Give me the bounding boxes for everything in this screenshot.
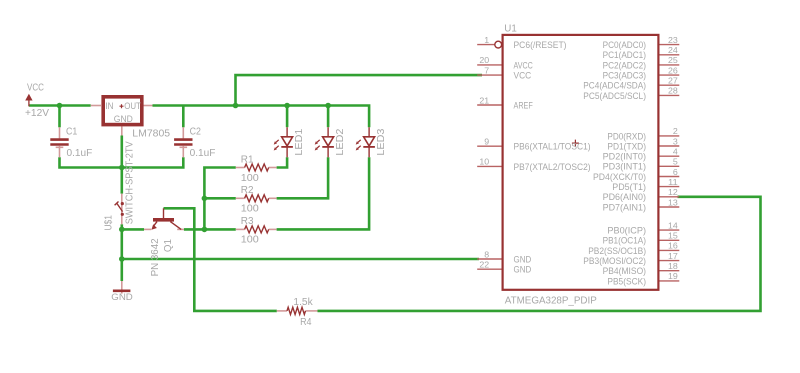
- svg-text:GND: GND: [114, 114, 133, 124]
- svg-text:7: 7: [484, 65, 489, 75]
- svg-text:25: 25: [668, 55, 678, 65]
- svg-text:10: 10: [479, 157, 489, 167]
- svg-text:PB7(XTAL2/TOSC2): PB7(XTAL2/TOSC2): [514, 162, 591, 173]
- svg-text:27: 27: [668, 76, 678, 86]
- svg-text:26: 26: [668, 65, 678, 75]
- svg-text:PD7(AIN1): PD7(AIN1): [603, 202, 646, 213]
- svg-text:ATMEGA328P_PDIP: ATMEGA328P_PDIP: [505, 296, 597, 307]
- svg-text:LM7805: LM7805: [132, 128, 170, 139]
- svg-text:C2: C2: [190, 127, 201, 138]
- svg-text:100: 100: [241, 235, 260, 246]
- svg-text:R4: R4: [300, 317, 312, 328]
- svg-text:16: 16: [668, 241, 678, 251]
- svg-text:GND: GND: [111, 292, 133, 302]
- svg-text:C1: C1: [66, 127, 77, 138]
- svg-text:+12V: +12V: [25, 108, 50, 119]
- svg-text:R2: R2: [241, 185, 254, 196]
- svg-text:5: 5: [673, 157, 678, 167]
- svg-text:VCC: VCC: [514, 71, 532, 82]
- svg-text:IN: IN: [105, 101, 113, 111]
- svg-text:VCC: VCC: [27, 83, 44, 94]
- svg-text:28: 28: [668, 86, 678, 96]
- svg-text:2: 2: [673, 126, 678, 136]
- svg-text:OUT: OUT: [124, 101, 141, 111]
- svg-text:Q1: Q1: [163, 239, 174, 252]
- svg-text:AREF: AREF: [514, 100, 533, 111]
- svg-text:100: 100: [241, 173, 260, 184]
- svg-text:PC5(ADC5/SCL): PC5(ADC5/SCL): [583, 91, 646, 102]
- svg-text:GND: GND: [514, 265, 532, 276]
- svg-text:100: 100: [241, 204, 260, 215]
- svg-text:6: 6: [673, 167, 678, 177]
- svg-text:R3: R3: [241, 216, 254, 227]
- svg-text:12: 12: [668, 187, 678, 197]
- svg-text:0.1uF: 0.1uF: [190, 148, 216, 159]
- svg-text:1: 1: [484, 35, 489, 45]
- svg-text:8: 8: [484, 249, 489, 259]
- svg-text:PC6(/RESET): PC6(/RESET): [514, 40, 567, 51]
- svg-text:R1: R1: [241, 154, 254, 165]
- svg-text:LED1: LED1: [294, 129, 305, 156]
- svg-text:PB6(XTAL1/TOSC1): PB6(XTAL1/TOSC1): [514, 142, 591, 153]
- svg-text:18: 18: [668, 261, 678, 271]
- svg-text:20: 20: [479, 55, 489, 65]
- svg-text:11: 11: [668, 177, 678, 187]
- svg-text:PB5(SCK): PB5(SCK): [607, 276, 646, 287]
- svg-text:22: 22: [479, 260, 489, 270]
- svg-text:14: 14: [668, 220, 678, 230]
- svg-text:3: 3: [673, 136, 678, 146]
- svg-text:13: 13: [668, 197, 678, 207]
- svg-text:24: 24: [668, 45, 678, 55]
- svg-text:0.1uF: 0.1uF: [67, 148, 93, 159]
- svg-text:15: 15: [668, 231, 678, 241]
- svg-text:U$1: U$1: [103, 215, 114, 231]
- svg-text:17: 17: [668, 251, 678, 261]
- svg-text:U1: U1: [504, 23, 517, 34]
- svg-text:SWITCH-SPST-2TV: SWITCH-SPST-2TV: [124, 141, 135, 225]
- svg-text:LED3: LED3: [376, 129, 387, 156]
- svg-text:PN 3642: PN 3642: [150, 238, 161, 276]
- svg-text:LED2: LED2: [335, 129, 346, 156]
- svg-text:21: 21: [479, 95, 489, 105]
- svg-text:1.5k: 1.5k: [293, 297, 312, 308]
- svg-text:19: 19: [668, 271, 678, 281]
- svg-text:23: 23: [668, 35, 678, 45]
- svg-text:4: 4: [673, 147, 678, 157]
- svg-text:9: 9: [484, 137, 489, 147]
